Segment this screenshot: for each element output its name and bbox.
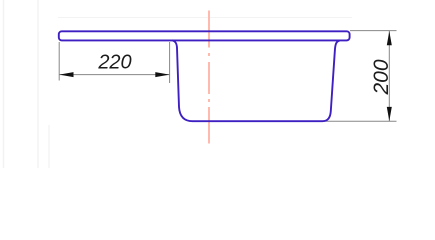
faint vertical guide line left 1: [3, 0, 5, 168]
rim (sink flange, purple rounded rectangle): [59, 31, 350, 40]
dimension line 220: [59, 74, 169, 76]
dimension line 200: [388, 31, 390, 121]
extension line left of dimension 220: [58, 42, 60, 81]
basin (bowl outline, purple): [173, 40, 340, 121]
center line (axis, dash-dot pink): [208, 11, 210, 144]
arrow left of 220: [59, 72, 73, 77]
svg-text:200: 200: [370, 59, 393, 95]
arrow top of 200: [387, 31, 392, 45]
arrow right of 220: [155, 72, 169, 77]
svg-text:220: 220: [97, 52, 131, 74]
arrow bottom of 200: [387, 107, 392, 121]
faint horizontal guide line top: [58, 17, 352, 19]
faint vertical guide line left 3: [48, 125, 50, 168]
extension line bottom of dimension 200: [324, 120, 397, 122]
extension line top of dimension 200: [350, 30, 397, 32]
extension line right of dimension 220: [169, 42, 171, 83]
faint vertical guide line left 2: [37, 0, 39, 168]
